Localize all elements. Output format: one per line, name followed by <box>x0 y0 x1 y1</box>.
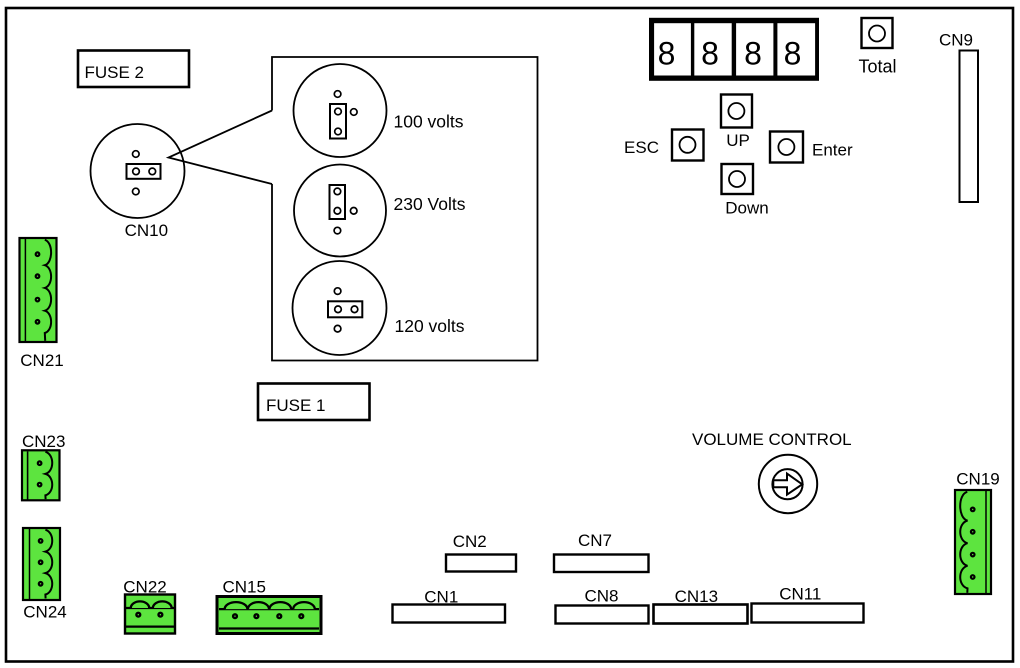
svg-text:CN23: CN23 <box>22 432 65 451</box>
svg-text:8: 8 <box>744 36 762 72</box>
svg-text:CN15: CN15 <box>222 578 265 597</box>
svg-text:CN9: CN9 <box>939 31 973 50</box>
svg-text:CN10: CN10 <box>125 221 168 240</box>
svg-text:CN7: CN7 <box>578 531 612 550</box>
svg-text:8: 8 <box>701 36 719 72</box>
svg-text:CN21: CN21 <box>20 351 63 370</box>
svg-text:8: 8 <box>784 36 802 72</box>
svg-text:Down: Down <box>725 199 768 218</box>
svg-text:CN8: CN8 <box>584 586 618 605</box>
svg-text:Enter: Enter <box>812 141 853 160</box>
svg-text:CN24: CN24 <box>23 603 66 622</box>
svg-text:CN13: CN13 <box>675 587 718 606</box>
svg-text:UP: UP <box>726 131 750 150</box>
svg-text:ESC: ESC <box>624 138 659 157</box>
svg-text:CN11: CN11 <box>779 584 821 603</box>
svg-text:CN2: CN2 <box>453 532 487 551</box>
svg-text:230 Volts: 230 Volts <box>394 194 466 214</box>
svg-text:CN19: CN19 <box>956 469 999 488</box>
svg-text:8: 8 <box>658 36 676 72</box>
svg-text:120 volts: 120 volts <box>395 316 465 336</box>
svg-text:Total: Total <box>858 56 896 76</box>
svg-text:100 volts: 100 volts <box>394 112 464 132</box>
svg-text:VOLUME CONTROL: VOLUME CONTROL <box>692 430 852 449</box>
svg-text:FUSE 1: FUSE 1 <box>266 396 326 415</box>
svg-text:FUSE 2: FUSE 2 <box>85 63 145 82</box>
